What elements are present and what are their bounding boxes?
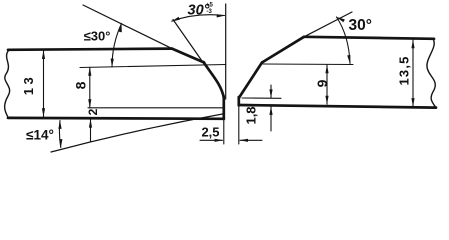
arrow dim9 bottom bbox=[325, 96, 328, 105]
dim 13.5 line bbox=[412, 40, 414, 107]
dim 1.8 lower leg bbox=[270, 107, 272, 132]
dim 1.8 extension line bbox=[242, 97, 281, 99]
arc 30°+5-3 bbox=[172, 15, 225, 21]
left plate break line (wavy) bbox=[5, 50, 10, 117]
svg-text:13,5: 13,5 bbox=[397, 55, 412, 85]
arrow right30 top bbox=[336, 17, 345, 23]
arrow dim13 top bbox=[42, 50, 45, 59]
arrow dim13.5 bottom bbox=[411, 98, 414, 107]
arrow arc30tol left bbox=[172, 17, 180, 22]
dim 2.5 right leg bbox=[240, 139, 262, 141]
steep bevel extension diagonal (for 30° tol) bbox=[173, 20, 206, 67]
dim 9 line bbox=[326, 65, 328, 104]
arrow dim1.8 upper bbox=[269, 89, 272, 98]
arrow dim8 bottom bbox=[88, 99, 91, 108]
dim 2 lower leg bbox=[90, 119, 92, 141]
left plate top surface bbox=[8, 49, 172, 50]
svg-text:+5: +5 bbox=[206, 3, 214, 9]
arc ≤14° bbox=[59, 121, 60, 148]
svg-text:9: 9 bbox=[314, 79, 330, 87]
svg-text:8: 8 bbox=[73, 81, 89, 89]
right plate top surface bbox=[304, 37, 434, 39]
arrow dim2.5 left bbox=[215, 139, 224, 142]
right plate break line (wavy) bbox=[427, 39, 436, 108]
arrow dim13 bottom bbox=[42, 108, 45, 117]
right plate lower bevel bbox=[239, 63, 262, 99]
arrow dim2.5 right bbox=[239, 139, 248, 142]
dim 8 line bbox=[89, 67, 91, 108]
arrow right30 bottom bbox=[347, 55, 350, 64]
right plate bottom surface bbox=[239, 105, 436, 108]
dim 1.8 upper leg bbox=[270, 85, 272, 98]
right knee-level extension line bbox=[263, 63, 353, 66]
root gap left extension bbox=[223, 119, 225, 144]
left plate steep bevel curve bbox=[204, 62, 224, 98]
arrow dim9 top bbox=[325, 65, 328, 74]
svg-text:13: 13 bbox=[21, 74, 36, 95]
dim 2.5 left leg bbox=[200, 139, 223, 141]
extension line at 2-level bbox=[88, 107, 223, 109]
svg-text:≤14°: ≤14° bbox=[26, 128, 54, 143]
arrow arc14 bottom bbox=[59, 139, 62, 148]
arc ≤30° bbox=[112, 24, 122, 68]
right bevel extension diagonal bbox=[304, 12, 352, 37]
right plate upper bevel bbox=[262, 37, 304, 63]
arrow dim2 below bbox=[89, 119, 92, 128]
arrow dim8 top bbox=[88, 67, 91, 76]
left plate shallow bevel edge bbox=[172, 49, 204, 63]
taper line ≤14° bbox=[51, 114, 223, 152]
dim 13 line bbox=[43, 51, 45, 117]
arrow arc30tol right bbox=[217, 14, 225, 17]
right 30° arc bbox=[337, 17, 351, 64]
arrow arc30 left bottom bbox=[111, 59, 114, 68]
left plate root face bbox=[222, 97, 225, 120]
svg-text:-3: -3 bbox=[207, 9, 213, 15]
svg-text:1,8: 1,8 bbox=[244, 106, 259, 124]
arrow dim1.8 lower bbox=[269, 106, 272, 115]
svg-text:2,5: 2,5 bbox=[201, 125, 219, 140]
root gap right extension bbox=[238, 106, 240, 144]
svg-text:30°: 30° bbox=[349, 17, 372, 34]
right plate root face bbox=[237, 97, 240, 105]
left bevel extension diagonal (for ≤30°) bbox=[83, 5, 172, 49]
arrow arc14 top bbox=[58, 120, 61, 129]
extension line at 8-level bbox=[80, 65, 226, 68]
arrow dim13.5 top bbox=[411, 40, 414, 49]
arrow arc30 left top bbox=[119, 23, 122, 32]
svg-text:≤30°: ≤30° bbox=[84, 29, 111, 44]
vertical reference line at root bbox=[225, 4, 227, 99]
svg-text:2: 2 bbox=[86, 108, 100, 115]
left plate bottom surface bbox=[8, 117, 224, 121]
